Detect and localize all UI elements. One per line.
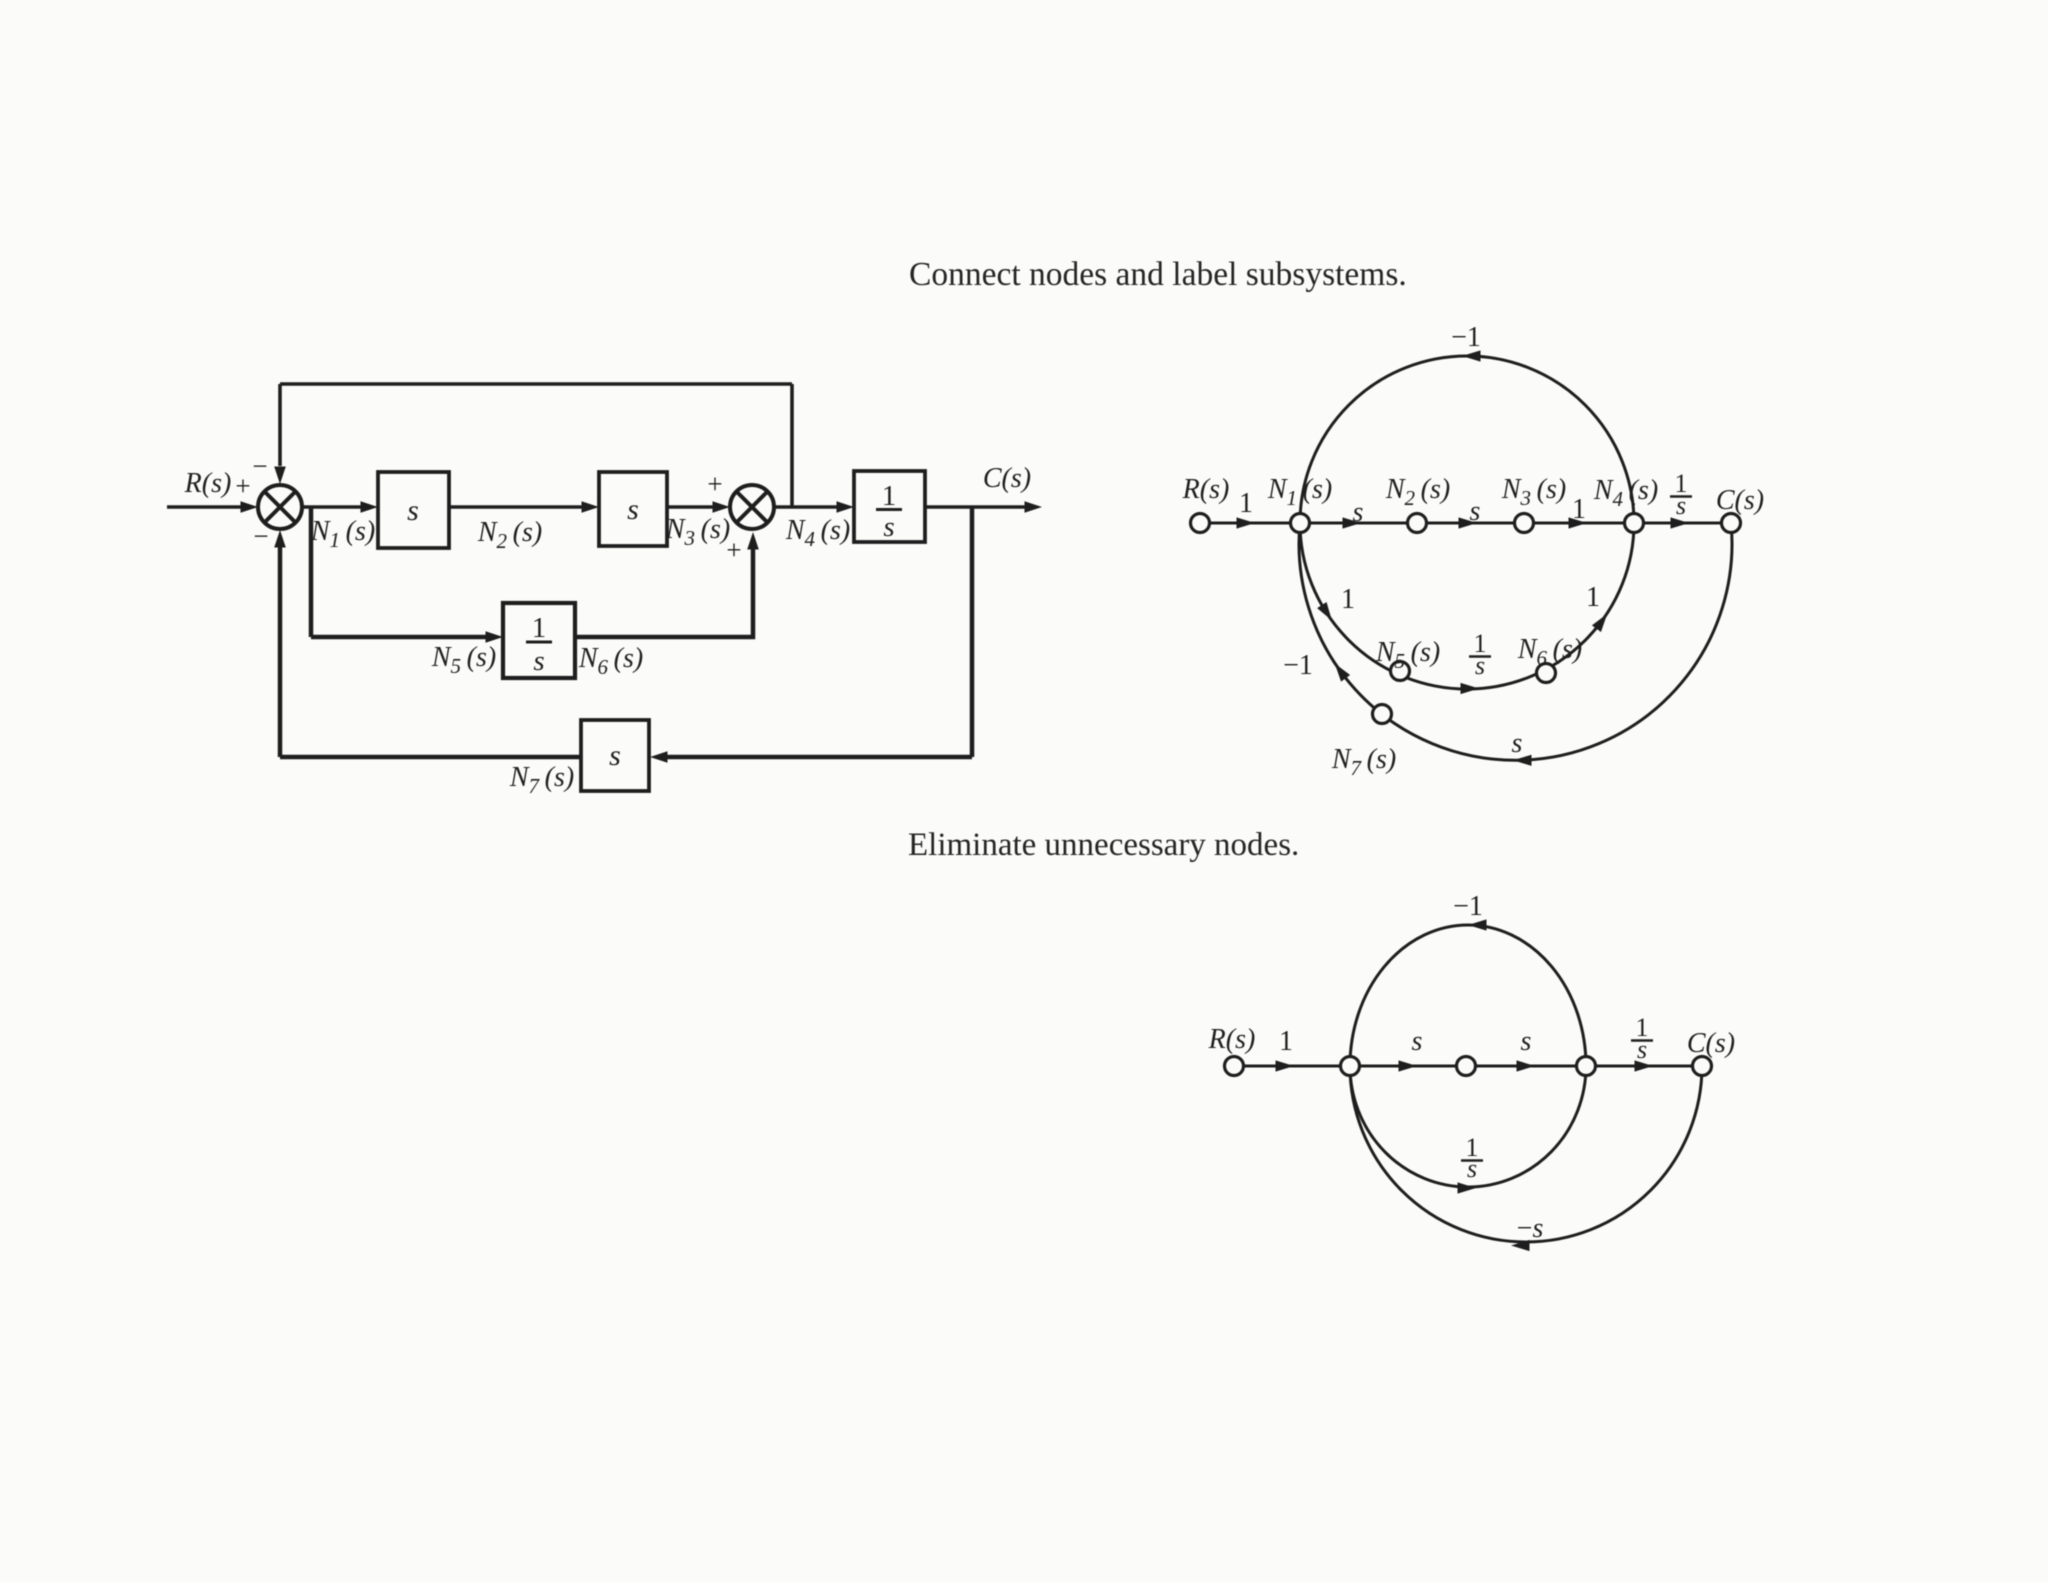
- wire: output branch down at x=972: [970, 507, 975, 757]
- wire: input R(s) line: [167, 505, 247, 509]
- svg-text:Connect nodes and label subsys: Connect nodes and label subsystems.: [909, 256, 1407, 293]
- node N5(s): [1391, 662, 1410, 681]
- svg-text:N6 (s): N6 (s): [1517, 634, 1582, 670]
- svg-text:N7 (s): N7 (s): [509, 762, 574, 798]
- node R(s): [1191, 514, 1210, 533]
- wire: output line to C(s): [925, 505, 1033, 509]
- svg-text:N6 (s): N6 (s): [578, 643, 643, 679]
- wire: bottom feedback vertical into junction 1: [278, 545, 283, 757]
- svg-text:−1: −1: [1283, 650, 1313, 681]
- svg-text:s: s: [407, 494, 419, 527]
- summing junction 2 (circle with X): [730, 485, 774, 529]
- svg-text:s: s: [1353, 497, 1364, 528]
- arrow N5->N6 on lower arc: [1461, 683, 1480, 694]
- arrow N3->N4: [1569, 517, 1588, 528]
- wire: input arrowhead into summing junction 1: [241, 501, 259, 513]
- svg-text:s: s: [1676, 491, 1686, 520]
- svg-text:1: 1: [1279, 1026, 1293, 1057]
- svg-text:C(s): C(s): [1716, 485, 1764, 516]
- arrow R->n2: [1276, 1060, 1295, 1071]
- svg-text:s: s: [1637, 1035, 1647, 1064]
- svg-text:s: s: [1412, 1026, 1423, 1057]
- svg-text:+: +: [235, 471, 250, 501]
- wire: junction 2 output to block 1/s: [774, 505, 843, 509]
- wire: main horizontal line R to C: [1200, 522, 1731, 525]
- block G1: s: [378, 472, 449, 548]
- block G4: 1/s (N5 to N6): [503, 603, 575, 678]
- wire: top feedback vertical from N4 node: [790, 384, 794, 507]
- block G3: 1/s: [854, 471, 925, 542]
- arrow C->N7 on big arc (pointing left): [1513, 755, 1532, 766]
- svg-text:N2 (s): N2 (s): [1385, 474, 1450, 510]
- svg-text:N5 (s): N5 (s): [1375, 637, 1440, 673]
- node 4 bottom graph: [1577, 1057, 1596, 1076]
- svg-text:−1: −1: [1451, 322, 1481, 353]
- svg-text:s: s: [1475, 651, 1485, 680]
- wire: bottom feedback from branch to block s (N7): [663, 755, 972, 760]
- arrow n2->n3: [1399, 1060, 1418, 1071]
- arrow N6->N4 on lower arc: [1592, 610, 1612, 632]
- svg-text:R(s): R(s): [1182, 474, 1230, 505]
- svg-text:s: s: [1521, 1026, 1532, 1057]
- wire: top feedback vertical into junction 1: [278, 384, 282, 466]
- arrow on lower 1/s arc (pointing right): [1458, 1182, 1477, 1193]
- svg-text:Eliminate unnecessary nodes.: Eliminate unnecessary nodes.: [908, 827, 1299, 863]
- arrow on top arc (pointing left): [1468, 919, 1487, 930]
- node 3 bottom graph: [1457, 1057, 1476, 1076]
- node N3(s): [1515, 514, 1534, 533]
- wire: G2 to junction 2: [667, 505, 719, 509]
- svg-text:C(s): C(s): [1687, 1028, 1735, 1059]
- svg-text:s: s: [533, 645, 544, 677]
- svg-text:s: s: [1512, 728, 1523, 759]
- svg-text:C(s): C(s): [983, 463, 1031, 494]
- arrow N7->N1 on big arc: [1330, 660, 1350, 682]
- wire: main horizontal line R to C: [1234, 1065, 1702, 1068]
- svg-text:R(s): R(s): [1208, 1024, 1256, 1055]
- arrow n4->C: [1635, 1060, 1654, 1071]
- svg-text:N3 (s): N3 (s): [1501, 474, 1566, 510]
- big bottom arc gain -s: [1350, 1066, 1702, 1242]
- arrow on -s arc (pointing left): [1511, 1240, 1530, 1251]
- node N6(s): [1537, 664, 1556, 683]
- arrow on top arc (gain -1, pointing left): [1462, 350, 1481, 361]
- svg-text:1: 1: [1341, 584, 1355, 615]
- lower arc gain 1/s: [1350, 1066, 1586, 1187]
- arc C to N7 to N1: [1299, 523, 1732, 760]
- node C(s): [1722, 514, 1741, 533]
- wire: G1 to G2: [449, 505, 588, 509]
- svg-text:1: 1: [532, 612, 547, 644]
- svg-text:R(s): R(s): [184, 468, 232, 499]
- svg-text:N1 (s): N1 (s): [1267, 474, 1332, 510]
- svg-text:N4 (s): N4 (s): [1593, 475, 1658, 511]
- node 2 bottom graph: [1341, 1057, 1360, 1076]
- node N4(s): [1625, 514, 1644, 533]
- svg-text:N5 (s): N5 (s): [431, 642, 496, 678]
- arrow N1->N2: [1343, 517, 1362, 528]
- top arc N4 to N1, gain -1: [1300, 356, 1634, 523]
- svg-text:1: 1: [882, 480, 897, 512]
- wire: branch N1 down: [309, 507, 314, 637]
- summing junction 1 (circle with X): [258, 485, 302, 529]
- node R(s) bottom graph: [1225, 1057, 1244, 1076]
- lower arc N1-N5-N6-N4: [1300, 523, 1634, 689]
- wire: junction 1 output to block G1: [302, 505, 367, 509]
- svg-text:−s: −s: [1517, 1213, 1544, 1244]
- wire: N7 block output to left vertical: [280, 755, 581, 760]
- svg-text:N2 (s): N2 (s): [477, 517, 542, 553]
- block G2: s: [599, 472, 667, 546]
- wire: N6 line right then up into junction 2: [575, 547, 753, 637]
- arrow n3->n4: [1517, 1060, 1536, 1071]
- svg-text:−: −: [252, 451, 267, 481]
- svg-text:s: s: [1467, 1154, 1477, 1183]
- arrow N4->C: [1671, 517, 1690, 528]
- wire: N5 line into block 1/s: [311, 635, 492, 640]
- wire: top feedback horizontal: [280, 382, 792, 386]
- svg-text:1: 1: [1239, 488, 1253, 519]
- arrow R->N1: [1237, 517, 1256, 528]
- block G5: s (feedback): [581, 720, 649, 791]
- node N7(s): [1373, 705, 1392, 724]
- node N1(s): [1291, 514, 1310, 533]
- top arc gain -1: [1350, 925, 1586, 1066]
- svg-text:s: s: [1470, 496, 1481, 527]
- svg-text:N1 (s): N1 (s): [310, 516, 375, 552]
- svg-text:s: s: [627, 493, 639, 526]
- arrow N2->N3: [1459, 517, 1478, 528]
- svg-text:s: s: [609, 739, 621, 772]
- svg-text:+: +: [726, 535, 741, 565]
- svg-text:+: +: [707, 469, 722, 499]
- svg-text:1: 1: [1572, 494, 1586, 525]
- svg-text:N3 (s): N3 (s): [665, 514, 730, 550]
- arrow N1->N5 on lower arc: [1317, 602, 1336, 624]
- node C(s) bottom graph: [1693, 1057, 1712, 1076]
- svg-text:N4 (s): N4 (s): [785, 515, 850, 551]
- svg-text:s: s: [883, 511, 894, 543]
- node N2(s): [1408, 514, 1427, 533]
- svg-text:−: −: [253, 521, 268, 551]
- svg-text:−1: −1: [1453, 891, 1483, 922]
- svg-text:1: 1: [1586, 582, 1600, 613]
- svg-text:N7 (s): N7 (s): [1331, 744, 1396, 780]
